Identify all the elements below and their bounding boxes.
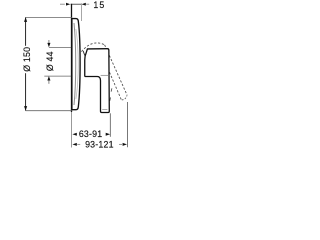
dia150 extension line top <box>26 16 72 18</box>
dim1 63-91 extension line right <box>109 113 111 137</box>
wall extension line to bottom dimensions <box>71 112 73 148</box>
dim2 93-121 extension line right <box>126 102 128 147</box>
dimension 15 line <box>71 3 82 5</box>
hub cone inner edge mark <box>83 51 85 56</box>
dimension 15 gray tail left <box>60 3 65 5</box>
dashed inner edge dash B <box>109 97 112 100</box>
dia150 dimension line upper segment <box>25 17 27 45</box>
dia150 arrow top <box>24 17 27 22</box>
dimension 15 extension line (face 15mm from wall) <box>80 3 82 21</box>
dim2 93-121 arrow left <box>72 143 76 146</box>
svg-text:63-91: 63-91 <box>79 129 103 139</box>
dimension 15 arrow right (pointing left at face line) <box>82 3 86 6</box>
hub/lever seam line <box>101 74 109 76</box>
svg-text:93-121: 93-121 <box>85 139 114 149</box>
escutcheon (wall plate, side profile) <box>72 19 80 110</box>
dia44 arrow bottom (pointing up) <box>47 76 50 80</box>
dashed handle silhouette back edge <box>105 62 122 100</box>
dashed inner edge dash A <box>110 88 113 91</box>
handle hub and lever blade (solid) <box>85 49 110 113</box>
dia150 dimension line lower segment <box>25 73 27 110</box>
svg-text:15: 15 <box>93 0 105 10</box>
dashed handle silhouette tip arc <box>122 96 127 100</box>
dashed handle silhouette front edge down to tip <box>105 45 128 96</box>
dim2 93-121 arrow right <box>123 143 127 146</box>
svg-text:Ø 44: Ø 44 <box>45 51 55 71</box>
svg-text:Ø 150: Ø 150 <box>22 47 32 72</box>
dia150 arrow bottom <box>24 106 27 111</box>
dim1 63-91 arrow right <box>106 133 110 136</box>
escutcheon inner highlight line A <box>74 23 76 105</box>
wall line <box>71 4 73 112</box>
dim2 93-121 gray stub right <box>119 143 122 145</box>
dim1 63-91 arrow left <box>72 133 76 136</box>
lever blade inner line near tip <box>102 109 107 111</box>
dia44 extension line top <box>49 46 71 48</box>
dimension 15 arrow left (pointing right at wall) <box>66 3 70 6</box>
escutcheon inner highlight line B <box>76 29 78 99</box>
dia44 dimension gray tail top <box>48 40 50 43</box>
dia150 extension line bottom <box>26 110 72 112</box>
dia44 arrow top (pointing down) <box>47 43 50 47</box>
dimension 15 gray tail right <box>86 3 89 5</box>
dia44 extension line bottom <box>44 75 71 77</box>
dashed handle silhouette (lever raised) top arc <box>81 43 104 52</box>
dia44 dimension gray tail bottom <box>48 81 50 84</box>
dim2 93-121 gray stub left <box>77 143 80 145</box>
